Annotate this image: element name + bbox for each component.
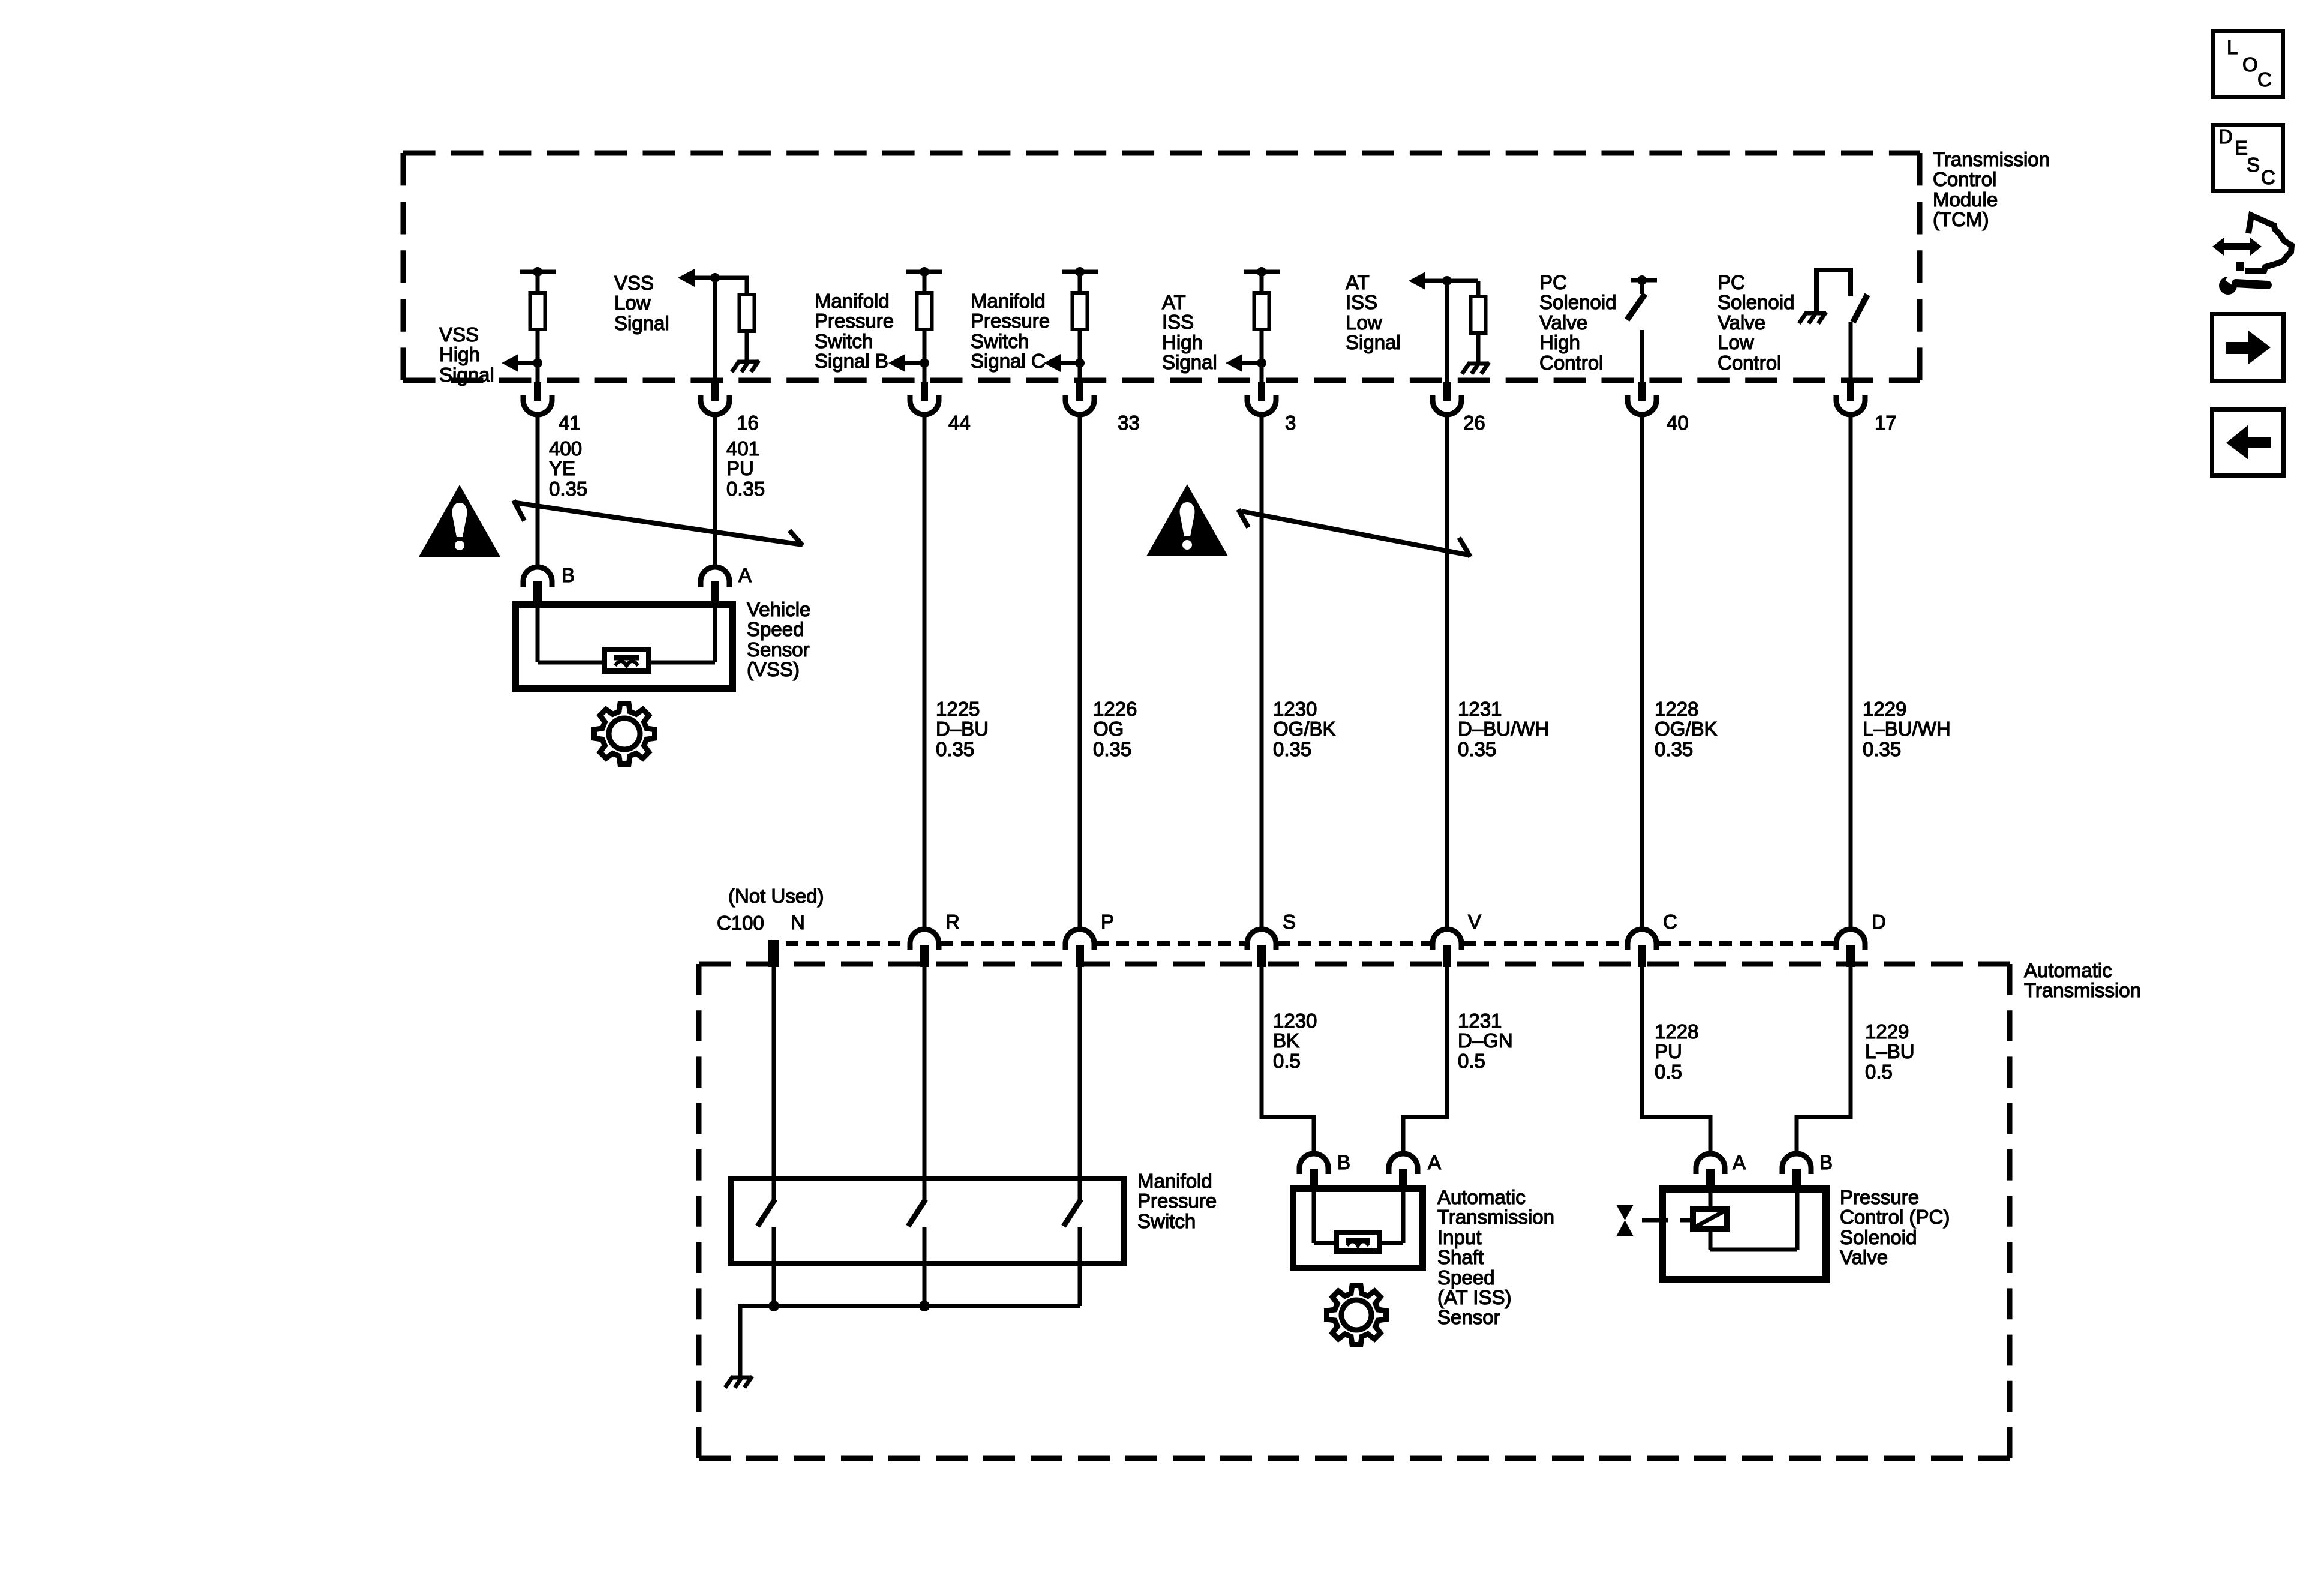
junction node bus 1 (768, 1301, 779, 1311)
TCM connector pin 44 (910, 382, 939, 415)
valve symbol (PC) (1616, 1205, 1690, 1236)
svg-text:Manifold: Manifold (815, 290, 890, 312)
svg-text:D–GN: D–GN (1458, 1029, 1513, 1052)
TCM connector pin 16 (701, 382, 729, 415)
label Transmission Control Module (TCM) (1933, 148, 2050, 230)
pin letter V (1468, 911, 1481, 933)
svg-text:(Not Used): (Not Used) (728, 885, 824, 907)
PC solenoid valve box (1662, 1189, 1826, 1280)
svg-text:0.35: 0.35 (1655, 738, 1693, 760)
pin number 33 (1118, 412, 1140, 434)
svg-text:C: C (1663, 911, 1677, 933)
svg-text:D–BU: D–BU (936, 718, 989, 740)
label Manifold Pressure Switch Signal C (971, 290, 1050, 372)
svg-text:Switch: Switch (1137, 1210, 1196, 1232)
switch PC Solenoid Valve Low Control (TCM driver to ground) (1816, 270, 1867, 385)
label VSS High Signal (439, 323, 494, 386)
svg-text:0.35: 0.35 (549, 478, 587, 500)
gear symbol (VSS) (594, 704, 655, 764)
svg-text:OG: OG (1093, 718, 1124, 740)
label Automatic Transmission (2024, 959, 2141, 1001)
svg-text:AT: AT (1346, 271, 1370, 293)
junction node VSS Low (710, 273, 720, 283)
svg-text:High: High (1162, 331, 1203, 353)
pin letter D (1872, 911, 1886, 933)
arrow AT ISS Low Signal (1409, 272, 1478, 290)
svg-text:Low: Low (1346, 311, 1382, 334)
connector pin B (PC) (1782, 1154, 1811, 1187)
twisted-pair marker 2 (1238, 509, 1470, 557)
junction node VSS High (533, 358, 542, 368)
label (Not Used) (728, 885, 824, 907)
TCM connector pin 3 (1247, 382, 1276, 415)
svg-text:C: C (2261, 166, 2275, 188)
junction node Manifold C (1075, 358, 1085, 368)
pin number 3 (1285, 412, 1296, 434)
resistor VSS High Signal (TCM internal) (520, 267, 556, 385)
svg-text:0.35: 0.35 (726, 478, 765, 500)
wire bus to ground (738, 1304, 743, 1376)
warning triangle 1 (419, 485, 500, 557)
svg-text:D: D (2218, 125, 2233, 148)
ground TCM PC Low (1799, 312, 1826, 323)
svg-text:(VSS): (VSS) (747, 658, 800, 680)
label Manifold Pressure Switch (1137, 1170, 1217, 1232)
svg-text:Speed: Speed (1437, 1266, 1494, 1289)
svg-text:Sensor: Sensor (747, 638, 810, 661)
svg-text:0.5: 0.5 (1458, 1050, 1485, 1072)
svg-text:N: N (791, 911, 805, 933)
label AT ISS Sensor (1437, 1186, 1554, 1328)
svg-text:400: 400 (549, 437, 582, 460)
icon hand with wrench (2212, 215, 2292, 295)
wire 1228 OG/BK 0.35 (1655, 698, 1718, 760)
svg-text:PC: PC (1718, 271, 1745, 293)
svg-text:PC: PC (1539, 271, 1567, 293)
svg-text:Control (PC): Control (PC) (1840, 1206, 1950, 1228)
svg-text:VSS: VSS (439, 323, 479, 346)
pin letter S (1283, 911, 1296, 933)
svg-text:L–BU: L–BU (1865, 1040, 1915, 1062)
svg-text:Automatic: Automatic (1437, 1186, 1526, 1208)
svg-text:V: V (1468, 911, 1481, 933)
arrow Manifold C (1044, 354, 1080, 372)
TCM connector pin 26 (1433, 382, 1461, 415)
pin number 17 (1875, 412, 1897, 434)
svg-text:Signal: Signal (1346, 331, 1401, 353)
label AT ISS High Signal (1162, 291, 1217, 373)
svg-text:1230: 1230 (1273, 698, 1317, 720)
connector pin B (AT ISS) (1299, 1154, 1328, 1187)
svg-text:0.35: 0.35 (1273, 738, 1311, 760)
wire vertical x=2103 (TCM to C100) (1260, 416, 1264, 932)
svg-text:C100: C100 (717, 912, 764, 934)
svg-text:A: A (1428, 1151, 1441, 1173)
resistor AT ISS Low to ground (1471, 281, 1486, 362)
svg-text:17: 17 (1875, 412, 1897, 434)
wire circuit 401 (pin 16 to VSS A) (713, 416, 717, 568)
icon box left arrow (2212, 410, 2284, 476)
svg-text:Control: Control (1539, 352, 1603, 374)
VSS pickup element (605, 650, 649, 671)
svg-text:High: High (1539, 331, 1580, 353)
wire vertical x=3085 (TCM to C100) (1849, 416, 1853, 932)
svg-text:16: 16 (737, 412, 759, 434)
svg-text:Valve: Valve (1718, 311, 1765, 334)
label Vehicle Speed Sensor (VSS) (747, 598, 810, 680)
svg-text:0.35: 0.35 (1458, 738, 1496, 760)
icon box right arrow (2212, 314, 2284, 381)
icon box DESC (2213, 125, 2283, 191)
pin number 16 (737, 412, 759, 434)
svg-text:Pressure: Pressure (1840, 1186, 1919, 1208)
svg-text:40: 40 (1667, 412, 1689, 434)
svg-text:41: 41 (559, 412, 581, 434)
wire 1230 BK 0.5 (1273, 1010, 1317, 1072)
switch blade MPS x=1541 (908, 1199, 926, 1226)
svg-text:Valve: Valve (1539, 311, 1587, 334)
wire into MPS at x=1800 (1078, 967, 1082, 1200)
svg-text:3: 3 (1285, 412, 1296, 434)
Manifold Pressure Switch box (731, 1179, 1124, 1264)
pin letter R (945, 911, 960, 933)
svg-text:A: A (738, 564, 752, 586)
wire 1230 OG/BK 0.35 (1273, 698, 1336, 760)
wire vertical x=1541 (TCM to C100) (923, 416, 927, 932)
wire 1231 D-GN 0.5 (1458, 1010, 1513, 1072)
svg-text:S: S (1283, 911, 1296, 933)
svg-text:Input: Input (1437, 1226, 1481, 1248)
PC solenoid internal wiring (1710, 1185, 1797, 1250)
MPS common bus (740, 1304, 1080, 1308)
wire 400 YE 0.35 (549, 437, 587, 500)
ground Manifold Pressure Switch (725, 1376, 752, 1388)
svg-text:OG/BK: OG/BK (1273, 718, 1336, 740)
svg-text:ISS: ISS (1162, 311, 1194, 333)
svg-text:Shaft: Shaft (1437, 1246, 1484, 1268)
svg-text:PU: PU (726, 457, 754, 479)
svg-text:1231: 1231 (1458, 698, 1502, 720)
wire 1229 L-BU/WH 0.35 (1863, 698, 1951, 760)
svg-text:E: E (2235, 137, 2248, 159)
svg-text:Transmission: Transmission (1437, 1206, 1554, 1228)
wire 1225 D-BU 0.35 (936, 698, 989, 760)
wire into MPS at x=1541 (923, 967, 927, 1200)
svg-text:44: 44 (948, 412, 971, 434)
AT ISS sensor box (1293, 1189, 1423, 1268)
icon box LOC (2213, 31, 2283, 97)
pin number 40 (1667, 412, 1689, 434)
wire below switch x=1800 (1078, 1227, 1082, 1306)
svg-text:0.5: 0.5 (1655, 1061, 1682, 1083)
svg-text:1226: 1226 (1093, 698, 1137, 720)
wire 1228 PU (C to PC A) (1642, 967, 1710, 1154)
junction node AT ISS Low (1442, 276, 1452, 286)
pin letter B (PC) (1819, 1151, 1833, 1173)
svg-text:PU: PU (1655, 1040, 1682, 1062)
label C100 (717, 912, 764, 934)
svg-text:L: L (2227, 36, 2238, 58)
C100 connector pin D (1836, 929, 1865, 967)
pin letter B (AT ISS) (1337, 1151, 1350, 1173)
gear symbol (AT ISS) (1327, 1286, 1386, 1345)
svg-text:High: High (439, 343, 480, 365)
AT ISS pickup element (1337, 1233, 1380, 1251)
arrow Manifold B (888, 354, 924, 372)
svg-text:S: S (2247, 154, 2260, 176)
svg-text:Control: Control (1718, 352, 1781, 374)
svg-text:BK: BK (1273, 1029, 1299, 1052)
svg-text:B: B (1337, 1151, 1350, 1173)
AT ISS internal wiring (1314, 1185, 1403, 1243)
ground TCM AT ISS Low (1462, 362, 1489, 374)
resistor AT ISS High Signal (TCM internal) (1244, 267, 1280, 385)
C100 connector pin S (1247, 929, 1276, 967)
wire circuit 400 (pin 41 to VSS B) (536, 416, 540, 568)
svg-text:1230: 1230 (1273, 1010, 1317, 1032)
svg-text:O: O (2242, 53, 2258, 76)
svg-text:P: P (1101, 911, 1114, 933)
switch blade MPS x=1800 (1064, 1199, 1081, 1226)
svg-text:0.35: 0.35 (1863, 738, 1901, 760)
wire 1226 OG 0.35 (1093, 698, 1137, 760)
svg-text:Solenoid: Solenoid (1840, 1226, 1917, 1248)
pin number 44 (948, 412, 971, 434)
connector pin A (VSS) (701, 567, 729, 601)
pin number 41 (559, 412, 581, 434)
C100 connector dotted line (786, 941, 1834, 946)
svg-text:C: C (2257, 68, 2272, 91)
label PC Solenoid Valve High Control (1539, 271, 1616, 374)
pin letter N (791, 911, 805, 933)
svg-text:YE: YE (549, 457, 575, 479)
svg-text:Switch: Switch (971, 330, 1029, 352)
svg-text:Solenoid: Solenoid (1539, 291, 1616, 313)
svg-text:1228: 1228 (1655, 1020, 1698, 1043)
svg-text:Signal B: Signal B (815, 350, 888, 372)
svg-text:Vehicle: Vehicle (747, 598, 810, 620)
wire 1231 D-GN (V to AT ISS A) (1403, 967, 1447, 1154)
wire vertical x=2412 (TCM to C100) (1445, 416, 1449, 932)
junction node Manifold B (920, 358, 929, 368)
svg-text:(TCM): (TCM) (1933, 208, 1989, 230)
twisted-pair marker 1 (514, 500, 803, 545)
svg-text:D: D (1872, 911, 1886, 933)
pin letter A (VSS) (738, 564, 752, 586)
svg-text:Manifold: Manifold (1137, 1170, 1212, 1192)
label PC Solenoid Valve Low Control (1718, 271, 1794, 374)
svg-text:OG/BK: OG/BK (1655, 718, 1718, 740)
svg-text:1228: 1228 (1655, 698, 1698, 720)
svg-text:26: 26 (1463, 412, 1485, 434)
svg-text:Module: Module (1933, 188, 1998, 211)
svg-text:B: B (1819, 1151, 1833, 1173)
svg-text:Manifold: Manifold (971, 290, 1046, 312)
junction node AT ISS High (1257, 358, 1266, 368)
connector pin A (AT ISS) (1389, 1154, 1418, 1187)
svg-text:Signal: Signal (614, 312, 669, 334)
wire 1230 BK (S to AT ISS B) (1262, 967, 1314, 1154)
pin letter B (VSS) (562, 564, 575, 586)
TCM connector pin 33 (1065, 382, 1094, 415)
svg-text:AT: AT (1162, 291, 1186, 313)
wire 1229 L-BU 0.5 (1865, 1020, 1915, 1083)
TCM connector pin 40 (1628, 382, 1656, 415)
svg-text:Pressure: Pressure (815, 310, 894, 332)
svg-text:ISS: ISS (1346, 291, 1377, 313)
resistor VSS Low to ground (740, 278, 755, 361)
svg-text:0.5: 0.5 (1273, 1050, 1301, 1072)
svg-text:VSS: VSS (614, 272, 654, 294)
svg-text:A: A (1733, 1151, 1746, 1173)
svg-text:1229: 1229 (1865, 1020, 1909, 1043)
wire AT ISS Low vertical (1445, 281, 1449, 385)
svg-text:L–BU/WH: L–BU/WH (1863, 718, 1951, 740)
switch PC Solenoid Valve High Control (TCM driver) (1627, 275, 1657, 385)
label VSS Low Signal (614, 272, 669, 334)
pin number 26 (1463, 412, 1485, 434)
wire 401 PU 0.35 (726, 437, 765, 500)
PC solenoid coil (1693, 1185, 1727, 1229)
svg-text:Speed: Speed (747, 618, 804, 640)
wire 1228 PU 0.5 (1655, 1020, 1698, 1083)
wire 1229 L-BU (D to PC B) (1797, 967, 1851, 1154)
C100 pin N stub (not used) (768, 940, 779, 967)
TCM connector pin 41 (523, 382, 552, 415)
C100 connector pin V (1433, 929, 1461, 967)
resistor Manifold Pressure Switch Signal B (TCM internal) (906, 267, 942, 385)
arrow VSS Low Signal (678, 269, 749, 287)
svg-text:Signal: Signal (439, 364, 494, 386)
svg-text:Solenoid: Solenoid (1718, 291, 1794, 313)
connector pin B (VSS) (523, 567, 552, 601)
C100 connector pin P (1065, 929, 1094, 967)
svg-text:1225: 1225 (936, 698, 980, 720)
svg-text:1229: 1229 (1863, 698, 1906, 720)
svg-text:Control: Control (1933, 168, 1996, 190)
svg-text:Signal: Signal (1162, 351, 1217, 373)
svg-text:Low: Low (1718, 331, 1754, 353)
connector pin A (PC) (1696, 1154, 1725, 1187)
pin letter P (1101, 911, 1114, 933)
svg-text:0.35: 0.35 (936, 738, 974, 760)
svg-text:Low: Low (614, 292, 651, 314)
resistor Manifold Pressure Switch Signal C (TCM internal) (1062, 267, 1098, 385)
svg-text:D–BU/WH: D–BU/WH (1458, 718, 1549, 740)
label Manifold Pressure Switch Signal B (815, 290, 894, 372)
svg-text:B: B (562, 564, 575, 586)
wire 1231 D-BU/WH 0.35 (1458, 698, 1549, 760)
Automatic Transmission dashed box (699, 964, 2010, 1458)
svg-text:Valve: Valve (1840, 1246, 1888, 1268)
VSS sensor box (516, 605, 733, 689)
svg-text:Transmission: Transmission (2024, 979, 2141, 1001)
TCM connector pin 17 (1836, 382, 1865, 415)
svg-text:1231: 1231 (1458, 1010, 1502, 1032)
pin letter A (PC) (1733, 1151, 1746, 1173)
arrow VSS High Signal (502, 354, 538, 372)
pin letter A (AT ISS) (1428, 1151, 1441, 1173)
VSS internal wiring (538, 601, 715, 662)
C100 connector pin R (910, 929, 939, 967)
svg-text:401: 401 (726, 437, 759, 460)
svg-text:(AT ISS): (AT ISS) (1437, 1286, 1511, 1308)
svg-text:0.5: 0.5 (1865, 1061, 1893, 1083)
wire vertical x=1800 (TCM to C100) (1078, 416, 1082, 932)
svg-text:33: 33 (1118, 412, 1140, 434)
svg-text:Sensor: Sensor (1437, 1306, 1500, 1328)
wire into MPS at x=1290 (772, 967, 776, 1200)
svg-text:R: R (945, 911, 960, 933)
svg-text:Automatic: Automatic (2024, 959, 2112, 981)
label Pressure Control (PC) Solenoid Valve (1840, 1186, 1950, 1268)
switch blade MPS x=1290 (758, 1199, 775, 1226)
ground TCM VSS Low (732, 361, 759, 372)
svg-text:Signal C: Signal C (971, 350, 1046, 372)
pin letter C (1663, 911, 1677, 933)
C100 connector pin C (1628, 929, 1656, 967)
wire below switch x=1541 (923, 1227, 927, 1306)
wire VSS Low vertical (713, 278, 717, 385)
wire below switch x=1290 (772, 1227, 776, 1306)
label AT ISS Low Signal (1346, 271, 1401, 353)
svg-text:Transmission: Transmission (1933, 148, 2050, 170)
warning triangle 2 (1146, 484, 1228, 556)
svg-text:Pressure: Pressure (971, 310, 1050, 332)
wire vertical x=2737 (TCM to C100) (1640, 416, 1644, 932)
arrow AT ISS High (1226, 354, 1262, 372)
TCM module dashed box (403, 153, 1920, 380)
svg-text:Pressure: Pressure (1137, 1190, 1217, 1212)
junction node bus 2 (919, 1301, 930, 1311)
svg-text:Switch: Switch (815, 330, 873, 352)
svg-text:0.35: 0.35 (1093, 738, 1131, 760)
